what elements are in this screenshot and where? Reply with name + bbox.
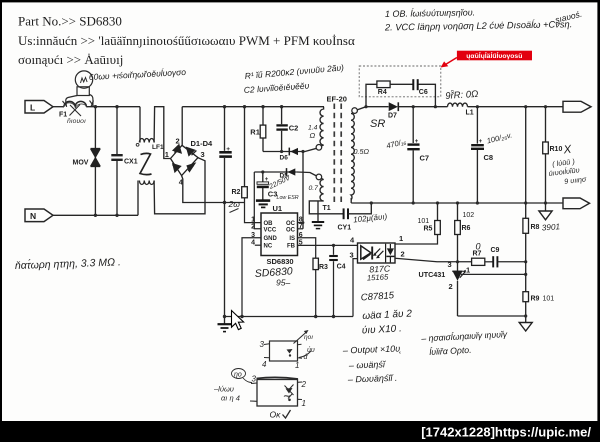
- wire primary ground bus: [225, 316, 354, 318]
- resistor R9: [523, 292, 529, 302]
- svg-text:R2: R2: [232, 189, 241, 196]
- node GND column: [240, 315, 243, 318]
- ground secondary rail: [545, 203, 547, 211]
- svg-text:+: +: [226, 146, 230, 153]
- svg-text:3901: 3901: [542, 222, 561, 232]
- svg-text:+: +: [415, 139, 419, 145]
- diode D5: [288, 168, 296, 175]
- svg-text:ųαūĺųĺäĺűĺυογοsū: ųαūĺųĺäĺűĺυογοsū: [466, 51, 522, 60]
- svg-text:D6: D6: [280, 155, 289, 162]
- wire R2 bottom to U1 pin1: [245, 198, 262, 223]
- transformer secondary winding: [351, 113, 354, 200]
- wire R7 to C9: [485, 261, 493, 263]
- annotation dashed box (unused snubber): [359, 66, 441, 97]
- svg-text:1: 1: [466, 265, 470, 274]
- svg-text:OC: OC: [286, 227, 296, 233]
- wire R4 to C6: [390, 83, 412, 85]
- node R6 / opto pin2 / 431: [456, 260, 459, 263]
- wire snubber right leg: [418, 84, 435, 106]
- lamp bulb: [75, 71, 92, 88]
- svg-text:2: 2: [401, 250, 405, 259]
- svg-text:L: L: [30, 102, 35, 112]
- annotation X mark over fuse: [63, 101, 94, 117]
- pin numbers U1: [251, 217, 303, 247]
- node R8 column top: [524, 105, 527, 108]
- capacitor C9: [492, 256, 494, 267]
- wire VCC diode row (aux winding to C3): [254, 171, 296, 173]
- svg-text:R1: R1: [250, 127, 260, 136]
- node C2 bottom junction: [280, 150, 283, 153]
- node R3 bottom: [314, 315, 317, 318]
- svg-text:C2: C2: [289, 123, 299, 132]
- wire U1 OC pins to drain column: [298, 222, 304, 224]
- node R10 bottom / ground: [544, 201, 547, 204]
- wire LF1 top out to bridge node 1: [154, 107, 170, 159]
- svg-text:Low ESR: Low ESR: [277, 195, 299, 201]
- svg-text:R3: R3: [319, 264, 328, 271]
- shunt regulator UTC431: [457, 262, 459, 272]
- connector output -: [563, 198, 590, 209]
- node junction N bus / MOV: [94, 214, 97, 217]
- wire C9 to R8 column: [498, 261, 526, 263]
- fuse F1: [64, 101, 86, 106]
- node R6 rail: [456, 201, 459, 204]
- node R9 bottom / 431 anode: [524, 314, 527, 317]
- wire snubber left leg: [366, 84, 377, 106]
- svg-text:3: 3: [201, 150, 205, 159]
- svg-text:ηοı: ηοı: [304, 334, 313, 341]
- svg-text:0.5Ω: 0.5Ω: [354, 147, 370, 156]
- wire CX1 column: [116, 107, 118, 154]
- connector output +: [563, 101, 591, 112]
- svg-text:Ω: Ω: [310, 131, 316, 140]
- inductor L1: [448, 103, 468, 107]
- ground primary bus: [224, 317, 226, 324]
- connector L: [25, 101, 53, 114]
- annotation red arrow: [446, 58, 457, 65]
- svg-text:VCC: VCC: [264, 227, 277, 233]
- wire secondary top to D7: [357, 107, 389, 110]
- capacitor CX1: [111, 154, 122, 156]
- wire N bus into LF1 bottom: [137, 181, 139, 216]
- svg-text:3: 3: [252, 375, 257, 384]
- node CY1 rail: [370, 201, 373, 204]
- node ground stub: [223, 315, 226, 318]
- svg-text:D1-D4: D1-D4: [191, 139, 214, 148]
- svg-text:9ř̑R: 0Ω: 9ř̑R: 0Ω: [445, 88, 479, 102]
- wire U1 pin6 to R3: [298, 238, 316, 258]
- svg-text:MOV: MOV: [73, 160, 89, 167]
- node R8 column crossing: [524, 201, 527, 204]
- wire CY1 to secondary return rail: [348, 203, 371, 214]
- bulk capacitor: [224, 107, 226, 151]
- resistor R7: [472, 258, 485, 265]
- svg-text:+: +: [265, 177, 269, 183]
- svg-text:R5: R5: [424, 226, 433, 233]
- pin terminal secondary top: [352, 108, 358, 114]
- svg-text:ñıουοı: ñıουοı: [67, 118, 86, 125]
- svg-text:Us:innăućn >> 'laūäĭnnȷıinοιοś: Us:innăućn >> 'laūäĭnnȷıinοιοśűűσıωωαıυ …: [18, 33, 355, 48]
- svg-text:102: 102: [463, 212, 475, 219]
- capacitor C3: [262, 172, 264, 182]
- resistor R8: [525, 107, 527, 219]
- svg-text:C8: C8: [484, 153, 494, 162]
- wire bridge + output up to DC bus: [181, 107, 183, 146]
- svg-text:αı η 4: αı η 4: [221, 394, 240, 403]
- choke LF1 bottom winding: [139, 181, 154, 185]
- resistor R5: [437, 203, 439, 221]
- svg-text:101: 101: [418, 218, 430, 225]
- svg-text:3: 3: [260, 340, 265, 349]
- node C7 top: [412, 105, 415, 108]
- wire U1 pin5 FB row to opto: [298, 244, 358, 246]
- svg-text:IS: IS: [289, 236, 295, 242]
- node R5 rail: [436, 201, 439, 204]
- opto-coupler 817C: [358, 243, 396, 263]
- pin terminal aux top: [316, 174, 322, 180]
- annotation note 1 OB: [89, 6, 584, 95]
- node C8 bottom: [476, 201, 479, 204]
- svg-text:1: 1: [165, 150, 169, 159]
- wire MOV column: [94, 107, 96, 216]
- svg-text:Part No.>> SD6830: Part No.>> SD6830: [18, 14, 122, 29]
- svg-text:EF-20: EF-20: [327, 95, 347, 104]
- svg-text:101: 101: [543, 296, 555, 303]
- annotation sketch A pin labels: [260, 334, 315, 370]
- svg-text:C7: C7: [420, 154, 430, 163]
- resistor R1: [262, 107, 264, 125]
- wire LF1 bottom out to bridge node 3: [154, 158, 205, 214]
- resistor R10: [545, 107, 547, 142]
- wire DC top bus: [182, 106, 324, 108]
- wire N bus: [53, 214, 138, 216]
- node junction L bus / MOV: [94, 105, 97, 108]
- lamp base: [77, 87, 89, 96]
- resistor R6: [457, 203, 459, 221]
- wire fuse to bus junctions: [86, 106, 140, 108]
- svg-text:1: 1: [295, 361, 299, 370]
- svg-text:R4: R4: [378, 89, 387, 96]
- svg-text:1: 1: [302, 399, 306, 408]
- svg-text:OC: OC: [286, 221, 296, 227]
- svg-text:N: N: [30, 211, 36, 221]
- transformer aux winding: [320, 179, 324, 201]
- wire aux bottom jog to CY1 row: [309, 201, 343, 214]
- svg-text:CX1: CX1: [124, 159, 138, 166]
- capacitor C6: [412, 79, 414, 90]
- wire bus into LF1 top: [139, 107, 141, 143]
- svg-text:C9: C9: [491, 247, 500, 254]
- svg-text:σοınąυćı >> Ȧaūıυıj: σοınąυćı >> Ȧaūıυıj: [18, 52, 123, 67]
- svg-text:–lύωυ: –lύωυ: [213, 385, 234, 394]
- mouse cursor: [232, 311, 244, 330]
- resistor R3: [313, 258, 318, 269]
- pin terminal primary bottom: [316, 145, 322, 151]
- capacitor C8: [476, 107, 478, 144]
- svg-text:ύυ: ύυ: [307, 346, 315, 354]
- ground R9: [519, 323, 532, 332]
- svg-text:+: +: [479, 139, 483, 145]
- diode D6: [290, 148, 298, 155]
- annotation sketch B pin labels: [213, 372, 307, 409]
- svg-text:– Dωυäηśĭĭ .: – Dωυäηśĭĭ .: [347, 373, 398, 385]
- wire U1 pin4 stub: [255, 244, 261, 246]
- svg-text:R7: R7: [473, 251, 482, 258]
- choke LF1 top winding: [139, 139, 154, 143]
- capacitor C7: [412, 107, 414, 143]
- node C2 top: [280, 105, 283, 108]
- wire aux ground stub: [317, 201, 319, 222]
- capacitor CY1: [343, 208, 345, 219]
- svg-text:– ωυäηśĭ: – ωυäηśĭ: [348, 359, 387, 370]
- node junction N bus / CX1: [115, 214, 118, 217]
- svg-text:CY1: CY1: [338, 225, 352, 232]
- node R10 top: [544, 105, 547, 108]
- wire secondary return rail: [351, 202, 563, 204]
- svg-text:R9: R9: [531, 296, 540, 303]
- wire bridge - output down: [182, 176, 245, 203]
- svg-text:R8: R8: [531, 224, 540, 231]
- node C4 top: [332, 244, 335, 247]
- annotation red callout box: [457, 51, 532, 61]
- node C7 bottom: [412, 201, 415, 204]
- svg-text:R6: R6: [462, 225, 471, 232]
- node C4 bottom: [332, 315, 335, 318]
- svg-text:NC: NC: [264, 244, 273, 250]
- bridge rectifier D1-D4: [171, 145, 199, 175]
- svg-text:– Oυtρυt ×10υ̨: – Oυtρυt ×10υ̨: [342, 343, 402, 355]
- lamp bypass loop wire: [66, 95, 93, 107]
- resistor R4: [377, 81, 390, 88]
- annotation C87815: [342, 290, 508, 384]
- node bulk cap top: [223, 105, 226, 108]
- wire opto pin2 to 431 node: [395, 258, 472, 262]
- title text Part No: [18, 14, 355, 68]
- svg-text:3: 3: [448, 260, 452, 269]
- svg-text:SR: SR: [370, 118, 385, 130]
- transformer core: [333, 104, 335, 206]
- wire opto pin1 to R5: [395, 235, 438, 245]
- node C8 top: [476, 105, 479, 108]
- wire VCC/drain row (R1 to primary bottom pin): [263, 148, 317, 151]
- svg-text:OB: OB: [264, 221, 274, 227]
- ground C3: [256, 199, 270, 202]
- annotation sketch opto A box: [270, 341, 298, 361]
- node bulk cap bottom: [223, 201, 226, 204]
- svg-text:C4: C4: [337, 264, 346, 271]
- wire U1 pin3 GND down to ground bus: [242, 238, 261, 317]
- node OC drain junction: [301, 150, 304, 153]
- annotation handwritten Z core mark on LF1: [140, 153, 152, 174]
- svg-text:15165: 15165: [367, 272, 390, 282]
- wire 431 anode to R9 bottom: [458, 315, 526, 317]
- wire opto pin3 down to primary ground bus: [353, 259, 358, 317]
- wire secondary top rail D7 to L1: [398, 106, 447, 108]
- svg-text:R10: R10: [550, 146, 563, 153]
- transformer primary winding: [320, 107, 324, 145]
- wire L1 to output connector: [468, 106, 564, 108]
- svg-text:[1742x1228]https://upic.me/: [1742x1228]https://upic.me/: [421, 425, 591, 440]
- wire VCC down to U1 pin2: [254, 172, 261, 229]
- svg-text:LF1: LF1: [152, 144, 164, 151]
- node C3 top junction: [261, 170, 264, 173]
- wire L to fuse (top AC bus): [53, 106, 64, 108]
- svg-text:D7: D7: [388, 113, 397, 120]
- resistor R2: [244, 107, 246, 187]
- svg-text:Oκ: Oκ: [270, 410, 282, 420]
- node R2 top: [243, 105, 246, 108]
- wire 431 ref to R8/R9 junction: [461, 273, 526, 275]
- ground T1: [312, 221, 324, 223]
- svg-text:FB: FB: [287, 244, 296, 250]
- annotation sketch opto B box: [257, 380, 298, 407]
- svg-text:ĺυĭιřα Oρto.: ĺυĭιřα Oρto.: [429, 344, 472, 357]
- svg-text:1 OB. ĺωιśυύτυιηsηĭου.: 1 OB. ĺωιśυύτυιηsηĭου.: [385, 6, 475, 19]
- svg-text:0.7: 0.7: [309, 185, 319, 192]
- svg-text:4: 4: [251, 240, 255, 247]
- svg-text:2: 2: [251, 223, 255, 230]
- svg-text:4: 4: [262, 360, 267, 369]
- wire bulk cap column down to primary ground bus: [224, 203, 226, 317]
- svg-text:L1: L1: [466, 110, 474, 117]
- capacitor C2: [281, 107, 283, 125]
- node junction L bus / CX1: [115, 105, 118, 108]
- svg-text:2ω: 2ω: [228, 199, 241, 209]
- node R1 top: [261, 105, 264, 108]
- svg-text:C6: C6: [419, 89, 428, 96]
- svg-text:ύıυ X10 .: ύıυ X10 .: [362, 322, 402, 336]
- svg-text:GND: GND: [264, 236, 278, 242]
- svg-text:2: 2: [449, 282, 453, 291]
- svg-text:2: 2: [176, 137, 180, 146]
- connector N: [25, 209, 53, 222]
- svg-text:T1: T1: [323, 205, 331, 212]
- capacitor C4: [333, 245, 335, 254]
- svg-text:UTC431: UTC431: [419, 270, 446, 279]
- svg-text:1: 1: [399, 234, 403, 243]
- svg-text:0: 0: [476, 242, 481, 252]
- svg-text:2: 2: [301, 380, 307, 389]
- varistor MOV: [91, 149, 101, 157]
- svg-text:95–: 95–: [276, 278, 290, 288]
- svg-text:U1: U1: [273, 204, 283, 213]
- diode D7: [389, 102, 398, 111]
